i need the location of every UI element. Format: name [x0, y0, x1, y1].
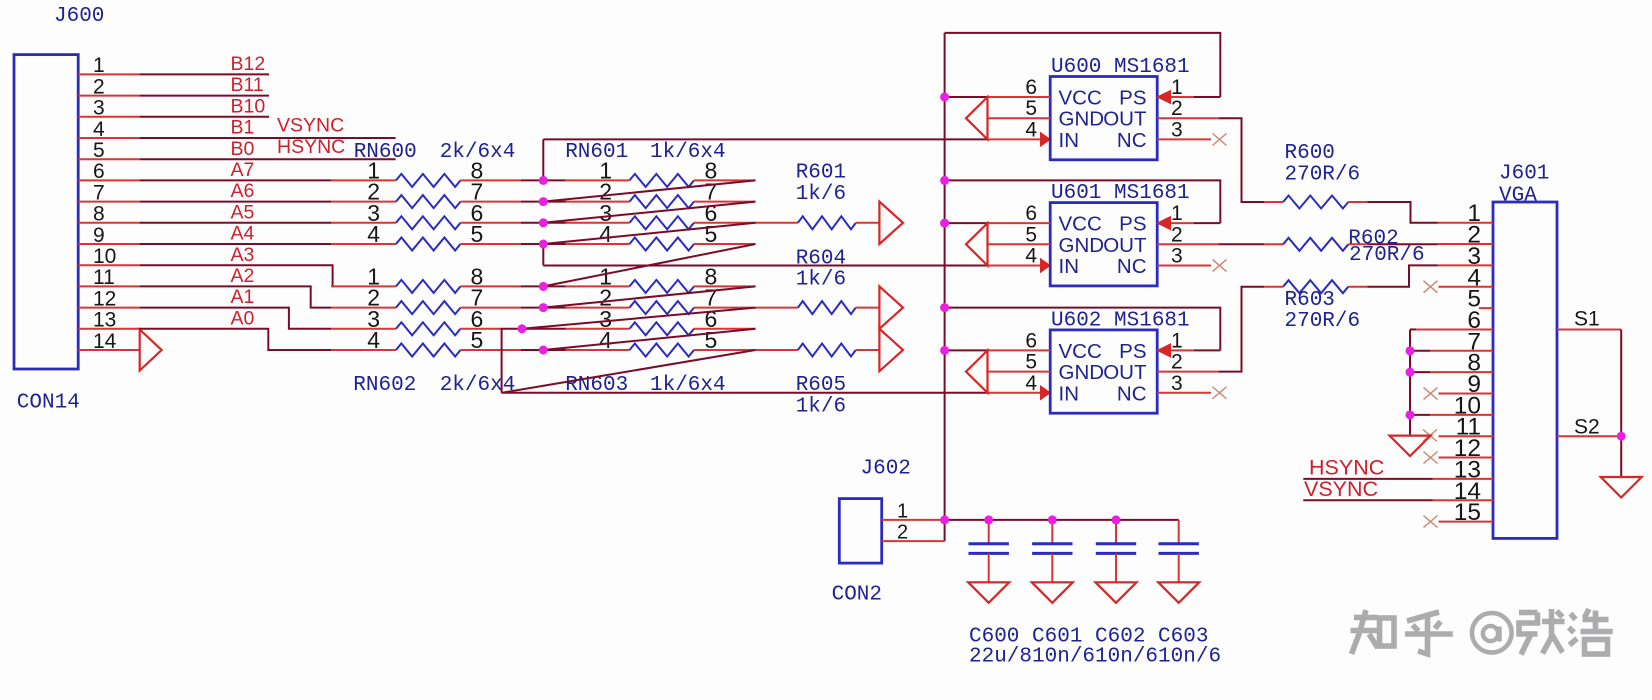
J600 pin 7	[78, 201, 139, 203]
U601 pin 3 no-connect X	[1213, 260, 1227, 272]
J600 pin 13	[78, 328, 139, 330]
svg-text:9: 9	[93, 224, 105, 247]
wire RN600.7 to RN601.2	[521, 201, 566, 203]
svg-text:A6: A6	[231, 180, 255, 202]
svg-text:3: 3	[93, 97, 105, 120]
wire net A1 (step to RN602 pin3)	[140, 308, 331, 329]
wire RN602.8 to RN603.1	[521, 285, 566, 287]
svg-text:A7: A7	[231, 159, 255, 181]
svg-text:5: 5	[1025, 97, 1037, 120]
svg-text:NC: NC	[1117, 382, 1147, 405]
U602 pin 3 (NC)	[1157, 392, 1211, 394]
J601 pin 13	[1433, 478, 1494, 480]
junction node bus/C601	[1048, 515, 1057, 524]
RN602 resistor element 3	[331, 328, 396, 330]
svg-text:J601: J601	[1499, 162, 1549, 185]
svg-text:11: 11	[93, 266, 115, 289]
wire U600 OUT to R600	[1219, 118, 1265, 202]
wire G2 output horizontal to U602 IN	[502, 392, 988, 394]
svg-text:VSYNC: VSYNC	[1304, 477, 1378, 501]
junction node bus/C602	[1112, 515, 1121, 524]
svg-text:IN: IN	[1059, 129, 1080, 152]
J600 pin 10	[78, 264, 139, 266]
svg-text:6: 6	[1025, 202, 1037, 225]
J600 pin 12	[78, 307, 139, 309]
wire RN602.7 to RN603.2	[521, 307, 566, 309]
J601 pin 7 to ground bus	[1430, 350, 1493, 352]
J600 pin 11	[78, 285, 139, 287]
U602 pin 1 red segment	[1157, 349, 1194, 351]
U602 pin 1 arrowhead	[1157, 344, 1170, 357]
wire VSYNC to J601 pin 14	[1303, 499, 1432, 501]
junction node bus/U601 VCC	[940, 219, 949, 228]
svg-text:2: 2	[93, 75, 105, 98]
op-amp U602 body	[1050, 330, 1157, 413]
J600 pin 9	[78, 243, 139, 245]
U600 pin 2 (OUT)	[1157, 117, 1218, 119]
svg-text:1k/6: 1k/6	[796, 395, 846, 418]
svg-text:5: 5	[705, 221, 718, 247]
ground symbol at J601 ground bus	[1390, 436, 1431, 457]
svg-text:J600: J600	[54, 5, 104, 28]
svg-text:3: 3	[1171, 118, 1183, 141]
J601 pin 14	[1433, 499, 1494, 501]
wire net A7	[140, 179, 331, 181]
svg-text:B12: B12	[231, 53, 266, 75]
ground symbol at S2	[1601, 477, 1642, 498]
svg-text:PS: PS	[1119, 340, 1146, 363]
svg-text:10: 10	[93, 245, 116, 268]
svg-text:A0: A0	[231, 307, 255, 329]
svg-text:2: 2	[1171, 351, 1183, 374]
svg-text:5: 5	[471, 221, 484, 247]
svg-text:4: 4	[599, 221, 612, 247]
U600 pin 3 no-connect X	[1213, 133, 1227, 145]
J601 pin 4 (NC)	[1439, 286, 1494, 288]
RN601 resistor element 4	[566, 243, 630, 245]
svg-text:R601: R601	[796, 162, 846, 185]
capacitor C601	[1051, 520, 1053, 544]
wire net A6	[140, 201, 331, 203]
J600 pin 4	[78, 137, 139, 139]
J601 pin 6 to ground bus	[1416, 328, 1493, 330]
svg-text:B1: B1	[231, 117, 255, 139]
J600 pin 14	[78, 349, 139, 351]
svg-text:7: 7	[93, 181, 105, 204]
U601 pin 5 (GND)	[988, 243, 1051, 245]
svg-text:12: 12	[93, 287, 116, 310]
svg-text:R603: R603	[1285, 289, 1335, 312]
wire net B10	[140, 116, 269, 118]
RN602 resistor element 4	[331, 349, 396, 351]
svg-text:1: 1	[93, 54, 105, 77]
svg-text:A4: A4	[231, 223, 255, 245]
U600 IN arrowhead	[1041, 133, 1051, 147]
U601 pin 3 (NC)	[1157, 265, 1211, 267]
R601 off-page output arrow	[879, 202, 903, 244]
junction node ground bus pin 10	[1406, 410, 1415, 419]
svg-text:CON14: CON14	[17, 391, 80, 414]
U602 IN pin red segment	[988, 392, 1051, 394]
U602 input port chevron	[966, 350, 988, 392]
svg-text:A3: A3	[231, 244, 255, 266]
svg-text:270R/6: 270R/6	[1285, 163, 1361, 186]
junction node bus/U600 VCC	[940, 93, 949, 102]
junction node bus/U602 VCC	[940, 346, 949, 355]
U600 pin 5 (GND)	[988, 117, 1051, 119]
svg-text:OUT: OUT	[1103, 234, 1147, 257]
RN601 resistor element 2	[566, 201, 630, 203]
RN601 resistor element 3	[566, 222, 630, 224]
wire S2 node to ground	[1620, 436, 1622, 477]
svg-text:CON2: CON2	[832, 584, 882, 607]
svg-text:B11: B11	[231, 74, 264, 96]
U600 pin 1 arrowhead	[1157, 91, 1170, 104]
svg-text:13: 13	[93, 309, 116, 332]
wire net A5	[140, 222, 331, 224]
J601 pin 2	[1438, 243, 1494, 245]
wire net B11	[140, 95, 269, 97]
svg-text:PS: PS	[1119, 213, 1146, 236]
U601 pin 6 (VCC)	[988, 222, 1051, 224]
junction node G1 row4	[539, 240, 548, 249]
svg-text:OUT: OUT	[1103, 361, 1147, 384]
J601 pin 3	[1438, 264, 1494, 266]
wire S1 vertical to S2 node	[1620, 329, 1622, 436]
svg-text:RN601: RN601	[565, 141, 628, 164]
wire RN600.6 to RN601.3	[521, 222, 566, 224]
svg-text:OUT: OUT	[1103, 108, 1147, 131]
connector J600 body (CON14)	[14, 55, 78, 369]
svg-text:IN: IN	[1059, 255, 1080, 278]
svg-text:6: 6	[1025, 76, 1037, 99]
wire U600 IN net horizontal	[543, 138, 987, 140]
svg-text:R604: R604	[796, 248, 846, 271]
svg-text:4: 4	[367, 221, 380, 247]
svg-text:VCC: VCC	[1059, 87, 1102, 110]
svg-text:NC: NC	[1117, 255, 1147, 278]
op-amp U601 body	[1050, 203, 1157, 286]
J601 pin 5 stub	[1479, 307, 1493, 309]
U602 pin 2 (OUT)	[1157, 371, 1218, 373]
svg-text:14: 14	[93, 330, 117, 353]
svg-text:2: 2	[897, 522, 908, 544]
svg-text:RN600: RN600	[354, 141, 417, 164]
svg-text:1: 1	[897, 500, 908, 522]
resistor R602	[1264, 243, 1283, 245]
junction node ground bus pin 8	[1406, 368, 1415, 377]
J601 pin 10 to ground bus	[1430, 414, 1493, 416]
svg-text:4: 4	[1025, 245, 1037, 268]
J601 pin 9 (NC)	[1439, 393, 1494, 395]
wire RN600.5 to RN601.4	[521, 243, 566, 245]
RN600 resistor element 3	[331, 222, 396, 224]
wire U602 OUT to R603	[1219, 287, 1265, 372]
U600 input port chevron	[966, 97, 988, 139]
U601 IN arrowhead	[1041, 259, 1051, 273]
svg-text:VCC: VCC	[1059, 340, 1102, 363]
ladder diagonal wire G1-3	[543, 223, 755, 244]
resistor R604	[756, 307, 798, 309]
junction node G1 row1	[539, 176, 548, 185]
wire R602 to J601 pin2	[1367, 243, 1437, 245]
svg-text:B10: B10	[231, 95, 266, 117]
ladder diagonal wire G2-2	[522, 308, 756, 329]
svg-text:A5: A5	[231, 201, 255, 223]
junction node ground bus pin 7	[1406, 346, 1415, 355]
junction node G1 row2	[539, 197, 548, 206]
svg-text:HSYNC: HSYNC	[277, 136, 345, 158]
junction node G1 row3	[539, 218, 548, 227]
wire G1 output horizontal to U601 IN	[543, 265, 987, 267]
U601 pin 2 (OUT)	[1157, 243, 1218, 245]
RN600 resistor element 1	[331, 179, 396, 181]
U602 pin 6 (VCC)	[988, 349, 1051, 351]
svg-text:PS: PS	[1119, 87, 1146, 110]
wire bus to U602 pin 6	[945, 349, 988, 351]
svg-text:4: 4	[1025, 118, 1037, 141]
junction node bus/U601 loop	[940, 176, 949, 185]
svg-text:IN: IN	[1059, 382, 1080, 405]
RN603 resistor element 1	[566, 285, 630, 287]
junction node bus/U602 loop	[940, 303, 949, 312]
junction node J602/bus	[940, 515, 949, 524]
svg-text:U600 MS1681: U600 MS1681	[1051, 56, 1190, 79]
svg-text:1k/6: 1k/6	[796, 269, 846, 292]
ladder diagonal wire G1-1	[543, 180, 755, 201]
U600 pin 3 (NC)	[1157, 138, 1211, 140]
wire HSYNC to J601 pin 13	[1303, 478, 1432, 480]
svg-text:6: 6	[1025, 329, 1037, 352]
U601 IN pin red segment	[988, 265, 1051, 267]
svg-text:5: 5	[1025, 351, 1037, 374]
svg-text:GND: GND	[1059, 108, 1105, 131]
svg-text:2: 2	[1171, 223, 1183, 246]
U601 pin 1 red segment	[1157, 222, 1194, 224]
U600 pin 1 red segment	[1157, 96, 1194, 98]
wire RN600.8 to RN601.1	[521, 179, 566, 181]
svg-text:270R/6: 270R/6	[1349, 244, 1425, 267]
wire S2 from J601 pin11 side	[1557, 435, 1621, 437]
wire net B0/HSYNC	[140, 158, 396, 160]
resistor R603	[1264, 286, 1283, 288]
wire net A3 (step to RN602 pin1)	[140, 265, 333, 286]
resistor R601	[756, 222, 798, 224]
junction node G2 row1	[539, 282, 548, 291]
wire S1 from J601 pin6 side	[1557, 328, 1621, 330]
svg-text:VGA: VGA	[1499, 184, 1537, 207]
svg-text:4: 4	[367, 327, 380, 353]
svg-text:2: 2	[1171, 97, 1183, 120]
svg-text:R600: R600	[1285, 142, 1335, 165]
wire net A0 (step to RN602 pin4)	[140, 329, 331, 350]
RN603 resistor element 2	[566, 307, 630, 309]
svg-text:VCC: VCC	[1059, 213, 1102, 236]
RN602 resistor element 1	[331, 285, 396, 287]
wire RN602.6 to RN603.3 (with tap corner)	[501, 328, 566, 330]
svg-text:VSYNC: VSYNC	[277, 115, 344, 137]
wire U601 OUT to R602	[1219, 243, 1265, 245]
ground symbol at C601	[1032, 582, 1073, 603]
wire net B12	[140, 73, 269, 75]
wire G2 output vertical from RN602.6 row	[501, 329, 503, 393]
svg-text:4: 4	[599, 327, 612, 353]
wire G1 output vertical (node to U601 IN)	[542, 244, 544, 266]
svg-text:U601 MS1681: U601 MS1681	[1051, 182, 1190, 205]
junction node S2	[1617, 432, 1626, 441]
resistor R600	[1264, 201, 1283, 203]
ground symbol at C602	[1096, 582, 1137, 603]
J600 pin 6	[78, 179, 139, 181]
resistor R605	[756, 349, 798, 351]
wire bus to U600 pin 6	[945, 96, 988, 98]
J602 pin 2	[882, 540, 945, 542]
RN602 resistor element 2	[331, 307, 396, 309]
svg-text:3: 3	[1171, 245, 1183, 268]
U600 pin 1 (PS) wire loop	[945, 33, 1221, 97]
ladder diagonal wire G2-3	[543, 329, 755, 350]
J602 pin 1	[882, 519, 945, 521]
svg-text:4: 4	[93, 118, 105, 141]
connector J601 body (VGA)	[1493, 202, 1557, 538]
J601 ground bus vertical	[1409, 329, 1411, 435]
J601 pin 15 (NC)	[1439, 521, 1494, 523]
watermark zhihu @zhanghao	[1351, 609, 1613, 655]
svg-text:8: 8	[93, 203, 105, 226]
svg-text:1: 1	[1171, 202, 1183, 225]
wire bus to U601 pin 6	[945, 222, 988, 224]
svg-text:270R/6: 270R/6	[1285, 310, 1361, 333]
svg-text:1: 1	[1171, 76, 1183, 99]
svg-text:GND: GND	[1059, 361, 1105, 384]
svg-text:J602: J602	[861, 458, 911, 481]
wire main power bus vertical	[944, 33, 946, 541]
svg-text:22u/810n/610n/610n/6: 22u/810n/610n/610n/6	[969, 646, 1221, 669]
ladder diagonal wire G1-4	[543, 244, 755, 286]
U601 pin 1 arrowhead	[1157, 217, 1170, 230]
svg-text:GND: GND	[1059, 234, 1105, 257]
svg-text:NC: NC	[1117, 129, 1147, 152]
ladder diagonal wire G2-1	[543, 286, 755, 307]
wire capacitor bus	[945, 519, 1179, 521]
junction node G2 row3	[518, 324, 527, 333]
svg-text:6: 6	[93, 160, 105, 183]
RN603 resistor element 4	[566, 349, 630, 351]
U602 IN arrowhead	[1041, 386, 1051, 400]
RN600 resistor element 4	[331, 243, 396, 245]
svg-text:R605: R605	[796, 374, 846, 397]
U601 input port chevron	[966, 223, 988, 265]
wire R600 to J601 pin1	[1367, 202, 1437, 223]
ground symbol at C603	[1158, 582, 1199, 603]
RN601 resistor element 1	[566, 179, 630, 181]
ladder diagonal wire G1-2	[543, 202, 755, 223]
J601 pin 11 (NC)	[1439, 435, 1494, 437]
U601 pin 1 (PS) wire loop	[945, 180, 1221, 223]
U602 pin 5 (GND)	[988, 371, 1051, 373]
ground symbol at C600	[968, 582, 1009, 603]
svg-text:5: 5	[1025, 223, 1037, 246]
svg-text:5: 5	[471, 327, 484, 353]
junction node bus/C600	[984, 515, 993, 524]
J600 pin 8	[78, 222, 139, 224]
wire U600 IN net vertical into ladder G1	[542, 139, 544, 180]
svg-text:A2: A2	[231, 265, 255, 287]
U602 pin 1 (PS) wire loop	[945, 308, 1221, 351]
svg-text:S1: S1	[1574, 308, 1600, 331]
J600 pin 1	[78, 73, 139, 75]
J601 pin 1	[1438, 222, 1494, 224]
svg-text:RN602: RN602	[353, 374, 416, 397]
RN600 resistor element 2	[331, 201, 396, 203]
U602 pin 3 no-connect X	[1213, 387, 1227, 399]
U600 IN pin red segment	[988, 138, 1051, 140]
J601 pin 8 to ground bus	[1430, 371, 1493, 373]
J600 pin14 off-page arrow	[140, 330, 162, 371]
wire net B1/VSYNC	[140, 137, 396, 139]
J600 pin 5	[78, 158, 139, 160]
R604 off-page output arrow	[879, 286, 903, 328]
U600 pin 6 (VCC)	[988, 96, 1051, 98]
ladder diagonal wire G2-4	[502, 350, 756, 393]
connector J602 body (CON2)	[839, 499, 881, 563]
junction node G2 row2	[539, 303, 548, 312]
wire net A2 (step to RN602 pin2)	[140, 286, 331, 307]
J601 pin 12 (NC)	[1439, 457, 1494, 459]
wire R603 to J601 pin3	[1367, 265, 1437, 286]
svg-text:5: 5	[705, 327, 718, 353]
junction node G2 row4	[539, 346, 548, 355]
J600 pin 3	[78, 116, 139, 118]
svg-text:A1: A1	[231, 286, 255, 308]
svg-text:4: 4	[1025, 372, 1037, 395]
RN603 resistor element 3	[566, 328, 630, 330]
svg-text:S2: S2	[1574, 416, 1600, 439]
capacitor C600	[988, 520, 990, 544]
svg-text:B0: B0	[231, 138, 255, 160]
svg-text:5: 5	[93, 139, 105, 162]
J600 pin 2	[78, 95, 139, 97]
svg-text:1k/6: 1k/6	[796, 183, 846, 206]
op-amp U600 body	[1050, 77, 1157, 160]
svg-text:U602 MS1681: U602 MS1681	[1051, 309, 1190, 332]
svg-text:1: 1	[1171, 329, 1183, 352]
svg-text:3: 3	[1171, 372, 1183, 395]
capacitor C603	[1178, 520, 1180, 544]
capacitor C602	[1115, 520, 1117, 544]
wire net A4	[140, 243, 331, 245]
R605 off-page output arrow	[879, 329, 903, 371]
wire RN602.5 to RN603.4	[521, 349, 566, 351]
